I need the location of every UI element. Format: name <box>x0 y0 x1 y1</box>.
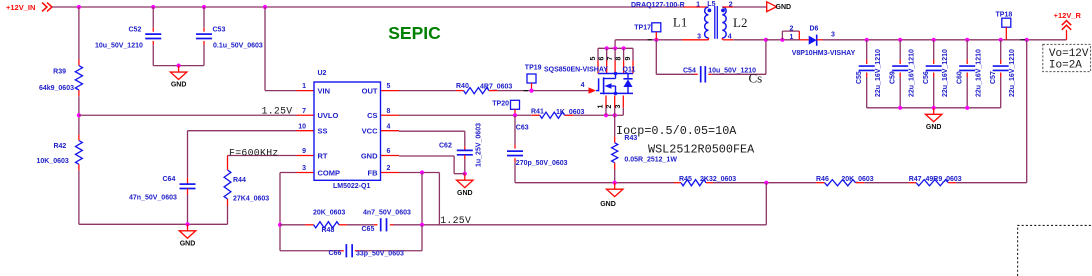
svg-text:8: 8 <box>616 57 623 61</box>
svg-text:COMP: COMP <box>318 168 341 177</box>
svg-text:9: 9 <box>625 57 632 61</box>
svg-text:VIN: VIN <box>318 86 331 95</box>
svg-text:TP19: TP19 <box>525 64 542 71</box>
svg-text:2K32_0603: 2K32_0603 <box>700 176 736 183</box>
svg-text:Io=2A: Io=2A <box>1049 60 1082 72</box>
svg-text:33p_50V_0603: 33p_50V_0603 <box>356 250 404 257</box>
svg-text:1K_0603: 1K_0603 <box>556 109 585 116</box>
svg-text:1: 1 <box>598 105 605 109</box>
svg-text:GND: GND <box>171 82 187 89</box>
svg-text:22u_16V_1210: 22u_16V_1210 <box>976 49 983 97</box>
svg-text:F=600KHz: F=600KHz <box>229 147 279 158</box>
svg-text:0.1u_50V_0603: 0.1u_50V_0603 <box>213 43 263 50</box>
svg-text:10u_50V_1210: 10u_50V_1210 <box>95 43 143 50</box>
svg-text:1.25V: 1.25V <box>440 215 471 226</box>
svg-text:TP18: TP18 <box>996 11 1013 18</box>
svg-text:Iocp=0.5/0.05=10A: Iocp=0.5/0.05=10A <box>616 124 737 138</box>
svg-text:Q11: Q11 <box>623 67 636 74</box>
svg-text:27K4_0603: 27K4_0603 <box>233 196 269 203</box>
svg-text:2: 2 <box>729 2 733 9</box>
svg-text:7: 7 <box>607 57 614 61</box>
svg-text:DRAQ127-100-R: DRAQ127-100-R <box>631 2 685 9</box>
svg-text:U2: U2 <box>318 70 327 77</box>
svg-text:22u_16V_1210: 22u_16V_1210 <box>1009 49 1016 97</box>
svg-text:GND: GND <box>776 4 792 11</box>
svg-text:R48: R48 <box>322 227 335 234</box>
svg-text:C53: C53 <box>213 26 226 33</box>
svg-text:V8P10HM3-VISHAY: V8P10HM3-VISHAY <box>792 50 856 57</box>
svg-text:+12V_R: +12V_R <box>1054 11 1082 20</box>
svg-text:R47: R47 <box>909 176 922 183</box>
svg-text:4n7_50V_0603: 4n7_50V_0603 <box>363 209 411 216</box>
svg-text:2: 2 <box>790 25 794 32</box>
svg-text:2: 2 <box>606 105 613 109</box>
svg-text:C55: C55 <box>856 71 863 84</box>
svg-text:R44: R44 <box>233 177 246 184</box>
svg-text:FB: FB <box>368 168 379 177</box>
svg-text:10K_0603: 10K_0603 <box>36 158 68 165</box>
svg-text:8: 8 <box>387 108 391 115</box>
svg-text:1: 1 <box>696 2 700 9</box>
svg-text:49R9_0603: 49R9_0603 <box>926 176 962 183</box>
svg-text:RT: RT <box>318 151 328 160</box>
svg-text:3: 3 <box>302 165 306 172</box>
svg-text:270p_50V_0603: 270p_50V_0603 <box>516 160 568 167</box>
svg-text:GND: GND <box>926 124 942 131</box>
svg-text:20K_0603: 20K_0603 <box>841 176 873 183</box>
svg-text:47n_50V_0603: 47n_50V_0603 <box>129 195 177 202</box>
svg-text:5: 5 <box>590 57 597 61</box>
svg-text:R39: R39 <box>53 69 66 76</box>
svg-text:6: 6 <box>387 148 391 155</box>
svg-text:R45: R45 <box>679 176 692 183</box>
svg-text:GND: GND <box>361 151 378 160</box>
svg-text:1u_25V_0603: 1u_25V_0603 <box>475 123 482 167</box>
svg-text:TP20: TP20 <box>492 100 509 107</box>
svg-text:R41: R41 <box>531 108 544 115</box>
svg-text:64k9_0603: 64k9_0603 <box>39 85 74 92</box>
svg-text:6: 6 <box>599 57 606 61</box>
svg-text:R42: R42 <box>53 143 66 150</box>
svg-text:SQS850EN-VISHAY: SQS850EN-VISHAY <box>544 67 608 74</box>
svg-text:TP17: TP17 <box>634 25 651 32</box>
svg-text:L5: L5 <box>707 1 715 8</box>
svg-text:2: 2 <box>387 165 391 172</box>
svg-text:SS: SS <box>318 127 328 136</box>
svg-text:Cs: Cs <box>749 71 763 86</box>
svg-text:5: 5 <box>387 83 391 90</box>
svg-text:4: 4 <box>581 82 585 89</box>
svg-text:4: 4 <box>387 123 391 130</box>
svg-text:GND: GND <box>600 201 616 208</box>
svg-text:3: 3 <box>697 34 701 41</box>
svg-text:VCC: VCC <box>362 127 378 136</box>
svg-text:4: 4 <box>728 34 732 41</box>
svg-text:C63: C63 <box>516 125 529 132</box>
svg-text:Vo=12V: Vo=12V <box>1049 48 1089 60</box>
svg-text:R40: R40 <box>456 83 469 90</box>
svg-text:L2: L2 <box>733 15 747 30</box>
svg-text:9: 9 <box>302 148 306 155</box>
svg-text:UVLO: UVLO <box>318 111 339 120</box>
svg-text:CS: CS <box>367 111 377 120</box>
svg-text:3: 3 <box>615 105 622 109</box>
svg-text:SEPIC: SEPIC <box>388 23 441 43</box>
svg-text:LM5022-Q1: LM5022-Q1 <box>333 183 370 190</box>
svg-text:10: 10 <box>298 123 306 130</box>
svg-text:22u_16V_1210: 22u_16V_1210 <box>909 49 916 97</box>
svg-text:C66: C66 <box>329 250 342 257</box>
svg-text:OUT: OUT <box>362 86 378 95</box>
svg-text:C52: C52 <box>129 26 142 33</box>
svg-text:R46: R46 <box>816 176 829 183</box>
svg-text:C56: C56 <box>923 71 930 84</box>
svg-text:D6: D6 <box>810 26 819 33</box>
svg-text:C60: C60 <box>957 71 964 84</box>
svg-text:GND: GND <box>180 240 196 247</box>
svg-text:7: 7 <box>302 108 306 115</box>
svg-text:WSL2512R0500FEA: WSL2512R0500FEA <box>648 142 755 156</box>
svg-text:0.05R_2512_1W: 0.05R_2512_1W <box>624 157 677 164</box>
svg-text:C62: C62 <box>439 143 452 150</box>
svg-text:C65: C65 <box>362 226 375 233</box>
svg-text:3: 3 <box>831 32 835 39</box>
svg-text:1: 1 <box>790 34 794 41</box>
svg-text:C57: C57 <box>990 71 997 84</box>
svg-text:20K_0603: 20K_0603 <box>313 209 345 216</box>
svg-text:C64: C64 <box>163 176 176 183</box>
svg-text:C59: C59 <box>890 71 897 84</box>
svg-text:+12V_IN: +12V_IN <box>6 3 35 12</box>
svg-text:C54: C54 <box>683 67 696 74</box>
svg-text:22u_16V_1210: 22u_16V_1210 <box>942 49 949 97</box>
svg-text:GND: GND <box>457 190 473 197</box>
svg-text:22u_16V_1210: 22u_16V_1210 <box>875 49 882 97</box>
svg-text:1.25V: 1.25V <box>262 106 293 117</box>
svg-text:4R7_0603: 4R7_0603 <box>480 83 512 90</box>
svg-text:L1: L1 <box>673 14 687 29</box>
svg-text:1: 1 <box>302 83 306 90</box>
